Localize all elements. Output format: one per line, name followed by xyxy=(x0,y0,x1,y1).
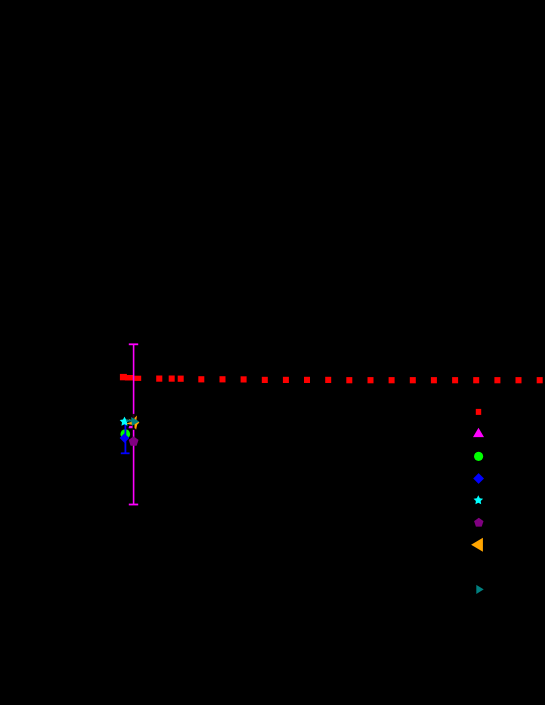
red series: square marker 2 xyxy=(125,375,133,381)
magenta error bar vertical line xyxy=(133,344,135,504)
faint residue of magenta line under black bar xyxy=(133,414,134,418)
legend green circle xyxy=(474,452,483,461)
legend teal right triangle xyxy=(476,585,483,594)
legend orange left triangle xyxy=(471,538,483,552)
legend magenta triangle xyxy=(473,428,484,437)
legend cyan star xyxy=(474,495,484,504)
blue diamond data marker xyxy=(120,433,130,443)
purple pentagon data marker xyxy=(129,436,139,445)
legend red square xyxy=(476,409,481,415)
legend purple pentagon xyxy=(474,518,483,527)
orange star-burst data marker xyxy=(126,416,139,430)
green circle data marker xyxy=(120,429,130,439)
teal right triangle data marker xyxy=(131,417,139,426)
blue error bar vertical line xyxy=(125,424,127,453)
red series: square marker 1 xyxy=(120,374,127,380)
red series: square marker 3 xyxy=(134,376,141,381)
black error bar of invisible series (covers magenta line) xyxy=(133,414,135,430)
legend blue diamond xyxy=(473,473,484,484)
magenta triangle data marker (visible slivers) xyxy=(129,426,133,428)
blue error bar bottom cap xyxy=(121,452,130,454)
red dotted line dots xyxy=(156,376,543,384)
cyan star data marker xyxy=(120,417,130,426)
teal horizontal bar (x error) xyxy=(126,420,132,422)
magenta error bar top cap xyxy=(129,343,138,345)
magenta error bar bottom cap xyxy=(129,504,138,506)
